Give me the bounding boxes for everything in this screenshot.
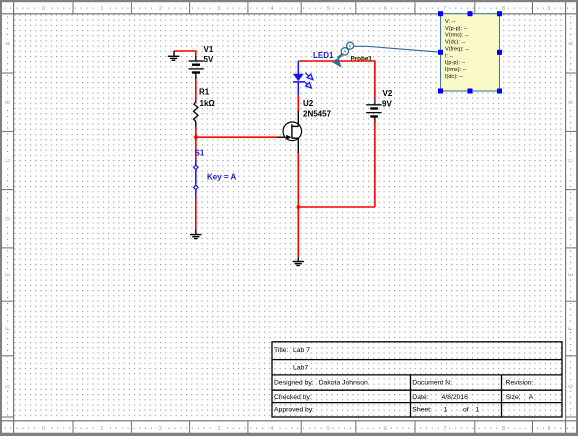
- svg-text:V(p-p): --: V(p-p): --: [445, 26, 468, 32]
- svg-text:Approved by:: Approved by:: [274, 406, 314, 413]
- svg-text:1: 1: [476, 406, 480, 413]
- svg-text:U2: U2: [303, 99, 314, 108]
- svg-text:V(rms): --: V(rms): --: [445, 33, 469, 39]
- svg-text:0: 0: [42, 426, 45, 432]
- svg-text:of: of: [463, 406, 469, 413]
- svg-text:4: 4: [271, 6, 274, 12]
- svg-text:D: D: [569, 217, 575, 221]
- svg-text:R1: R1: [199, 88, 210, 97]
- svg-text:0: 0: [42, 6, 45, 12]
- svg-text:B: B: [569, 100, 575, 104]
- svg-text:A: A: [6, 41, 12, 45]
- svg-text:6: 6: [384, 6, 387, 12]
- svg-text:I(p-p): --: I(p-p): --: [445, 60, 465, 66]
- svg-text:9V: 9V: [382, 99, 392, 108]
- svg-text:1: 1: [101, 6, 104, 12]
- svg-text:3: 3: [217, 426, 220, 432]
- svg-text:F: F: [6, 327, 12, 330]
- svg-text:Sheet:: Sheet:: [412, 406, 432, 413]
- svg-text:2N5457: 2N5457: [303, 110, 332, 119]
- svg-text:Size:: Size:: [506, 394, 521, 401]
- svg-text:Lab7: Lab7: [293, 365, 308, 372]
- svg-text:Document N:: Document N:: [412, 380, 452, 387]
- svg-text:3: 3: [217, 6, 220, 12]
- svg-text:A: A: [529, 394, 534, 401]
- svg-text:Probe1: Probe1: [351, 55, 373, 62]
- svg-text:4: 4: [271, 426, 274, 432]
- svg-text:2: 2: [159, 426, 162, 432]
- svg-text:8: 8: [502, 426, 505, 432]
- svg-text:G: G: [6, 384, 12, 388]
- svg-text:I(dc): --: I(dc): --: [445, 74, 463, 80]
- svg-text:S1: S1: [195, 149, 205, 158]
- svg-text:D: D: [6, 217, 12, 221]
- svg-text:6: 6: [384, 426, 387, 432]
- svg-text:1: 1: [444, 406, 448, 413]
- svg-text:V2: V2: [383, 89, 393, 98]
- svg-text:V(dc): --: V(dc): --: [445, 40, 465, 46]
- svg-text:9: 9: [548, 6, 551, 12]
- svg-text:C: C: [569, 158, 575, 162]
- svg-text:E: E: [6, 272, 12, 276]
- svg-text:C: C: [6, 158, 12, 162]
- svg-text:I: --: I: --: [445, 53, 454, 59]
- svg-text:V1: V1: [204, 45, 214, 54]
- svg-text:I(rms): --: I(rms): --: [445, 67, 467, 73]
- svg-text:Title:: Title:: [274, 347, 289, 354]
- svg-text:Date:: Date:: [412, 394, 428, 401]
- svg-text:Lab 7: Lab 7: [293, 347, 310, 354]
- svg-text:V(freq): --: V(freq): --: [445, 46, 469, 52]
- svg-text:Designed by:: Designed by:: [274, 380, 314, 387]
- svg-text:1: 1: [101, 426, 104, 432]
- svg-text:8: 8: [502, 6, 505, 12]
- svg-text:E: E: [569, 272, 575, 276]
- svg-text:Checked by:: Checked by:: [274, 394, 312, 401]
- svg-text:V: --: V: --: [445, 19, 455, 25]
- svg-text:5V: 5V: [204, 55, 214, 64]
- svg-text:Key = A: Key = A: [207, 173, 236, 182]
- svg-text:LED1: LED1: [313, 51, 334, 60]
- svg-text:1kΩ: 1kΩ: [200, 99, 216, 108]
- svg-text:G: G: [569, 384, 575, 388]
- svg-text:5: 5: [327, 426, 330, 432]
- svg-text:9: 9: [548, 426, 551, 432]
- svg-text:7: 7: [443, 426, 446, 432]
- svg-text:V: V: [349, 43, 352, 48]
- svg-text:5: 5: [327, 6, 330, 12]
- svg-text:4/8/2016: 4/8/2016: [442, 394, 469, 401]
- svg-text:2: 2: [159, 6, 162, 12]
- svg-text:Revision:: Revision:: [506, 380, 534, 387]
- svg-text:B: B: [6, 100, 12, 104]
- svg-text:F: F: [569, 327, 575, 330]
- svg-text:Dakota Johnson: Dakota Johnson: [319, 380, 368, 387]
- svg-text:7: 7: [443, 6, 446, 12]
- svg-text:A: A: [569, 41, 575, 45]
